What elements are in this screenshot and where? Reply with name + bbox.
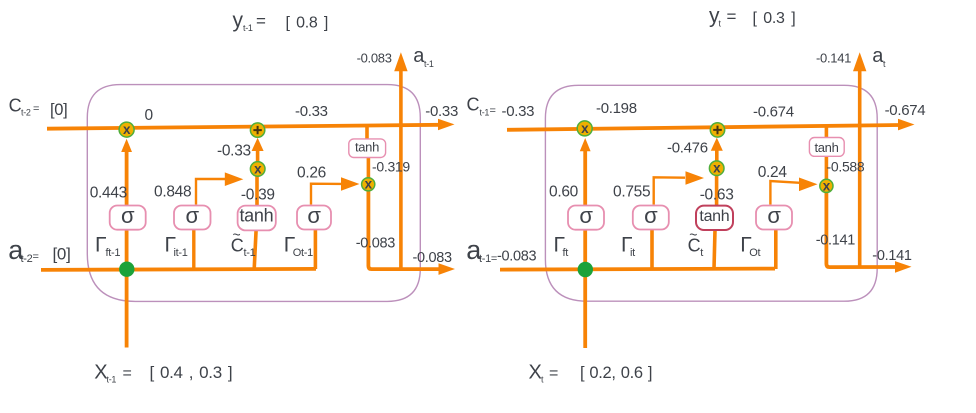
svg-text:-0.33: -0.33 — [425, 103, 458, 120]
svg-text:ft-1: ft-1 — [106, 247, 121, 259]
small tanh box (t-1 output) — [349, 139, 386, 158]
wire: output elbow arrow (0.24) — [770, 181, 800, 205]
LSTM cell boundary U1 (t-1) — [87, 85, 420, 302]
svg-text:[ 0.8 ]: [ 0.8 ] — [286, 15, 329, 32]
sigma box: forget gate (t) — [568, 206, 604, 230]
wire: C line to small tanh stub (t) — [825, 126, 829, 138]
svg-text:-0.141: -0.141 — [816, 50, 851, 65]
svg-text:-0.476: -0.476 — [667, 140, 708, 157]
svg-text:-0.083: -0.083 — [413, 250, 453, 266]
label C_t-1 = -0.33 — [467, 95, 535, 121]
wire: small tanh to X3 stub — [367, 158, 371, 179]
label y_t-1 = [ 0.8 ] — [233, 9, 329, 33]
tanh box: candidate (t) red border — [696, 206, 733, 230]
svg-text:-0.141: -0.141 — [816, 233, 856, 249]
svg-text:σ: σ — [121, 203, 135, 228]
svg-text:σ: σ — [186, 203, 200, 228]
svg-text:Ot-1: Ot-1 — [293, 247, 313, 259]
svg-text:-0.141: -0.141 — [872, 248, 912, 264]
wire: output segment to a_t arrow — [826, 193, 898, 268]
wire: candidate tanh to X2 (t) — [715, 176, 719, 206]
wire: cell-state line C (t) — [507, 125, 900, 130]
node: green junction dot (t) — [578, 262, 593, 277]
wire: forget-gate column + X input line — [125, 230, 129, 348]
svg-text:-0.33: -0.33 — [217, 143, 251, 160]
svg-text:x: x — [713, 161, 721, 176]
small tanh box (t output) — [809, 138, 844, 157]
wire: forget-gate column + X input line (t) — [583, 230, 587, 349]
svg-text:-0.198: -0.198 — [596, 100, 637, 117]
svg-text:-0.083: -0.083 — [357, 50, 392, 65]
wire: candidate column — [254, 230, 256, 269]
svg-text:0.848: 0.848 — [154, 184, 191, 201]
wire: cell-state line C (t-1) — [47, 125, 440, 129]
svg-text:t: t — [883, 59, 886, 69]
svg-text:C: C — [9, 96, 22, 116]
label X_t = [ 0.2, 0.6 ] — [529, 362, 653, 385]
svg-text:tanh: tanh — [699, 208, 729, 225]
svg-text:X: X — [529, 362, 542, 384]
svg-text:tanh: tanh — [239, 206, 273, 226]
svg-text:t: t — [541, 375, 544, 385]
svg-text:-0.083: -0.083 — [356, 236, 396, 252]
svg-text:ft: ft — [563, 247, 569, 259]
svg-text:0.26: 0.26 — [297, 165, 326, 182]
wire: forget-gate to X1 arrow (t) — [583, 148, 587, 206]
svg-text:[ 0.2, 0.6 ]: [ 0.2, 0.6 ] — [580, 364, 652, 382]
svg-text:0.60: 0.60 — [549, 184, 579, 201]
svg-text:-0.33: -0.33 — [295, 103, 328, 120]
add node + (t) — [710, 123, 724, 137]
svg-text:t-2: t-2 — [21, 253, 33, 265]
svg-text:σ: σ — [644, 203, 658, 228]
sigma box: forget gate (t-1) — [110, 206, 146, 230]
sigma box: update gate (t-1) — [174, 206, 211, 230]
wire: candidate column (t) — [714, 230, 715, 269]
label Gamma_it-1 — [165, 234, 188, 260]
label Gamma_ft — [554, 234, 569, 260]
wire: output elbow arrow (0.26) — [311, 184, 342, 205]
svg-text:=: = — [549, 365, 558, 382]
svg-text:σ: σ — [307, 203, 321, 228]
svg-text:tanh: tanh — [355, 139, 379, 154]
node: green junction dot (t-1) — [119, 262, 134, 277]
svg-text:x: x — [823, 178, 831, 193]
svg-text:t-1: t-1 — [107, 375, 117, 385]
svg-text:t-1: t-1 — [480, 107, 490, 117]
wire: forget-gate to X1 arrow — [125, 149, 129, 206]
svg-text:=: = — [490, 105, 496, 117]
svg-text:X: X — [94, 362, 107, 384]
svg-text:t-1=: t-1= — [479, 253, 497, 265]
label a_t-1 = -0.083 — [466, 235, 536, 265]
wire: output segment to a_t-1 arrow — [368, 191, 440, 269]
svg-text:σ: σ — [579, 203, 593, 228]
svg-text:t-2: t-2 — [21, 108, 31, 118]
wire: hidden-state up line (t) — [858, 68, 862, 268]
wire: output-gate column — [314, 230, 318, 270]
svg-text:x: x — [254, 161, 262, 176]
svg-text:-0.319: -0.319 — [372, 159, 410, 175]
multiply node X1 (t-1 forget) — [119, 122, 134, 137]
wire: update-gate column — [192, 230, 195, 270]
svg-text:~: ~ — [689, 227, 697, 243]
wire: C line to small tanh stub — [365, 127, 369, 140]
svg-text:0.755: 0.755 — [613, 184, 650, 201]
wire: hidden-state up line (t-1) — [399, 68, 403, 270]
svg-text:t-1: t-1 — [244, 247, 256, 259]
multiply node X2 (t-1 update) — [250, 162, 265, 177]
wire: X2 to + arrow — [256, 148, 260, 162]
svg-text:Ot: Ot — [749, 247, 760, 259]
wire: update-gate column (t) — [650, 230, 654, 270]
svg-text:t-1: t-1 — [243, 23, 253, 33]
svg-text:0.443: 0.443 — [90, 185, 127, 202]
label a_t-1 top — [413, 45, 434, 69]
svg-text:it-1: it-1 — [174, 247, 188, 259]
label Gamma_Ot-1 — [284, 234, 313, 260]
svg-text:=: = — [123, 365, 132, 382]
svg-text:[ 0.4 , 0.3 ]: [ 0.4 , 0.3 ] — [150, 363, 233, 382]
svg-text:[0]: [0] — [50, 101, 67, 119]
svg-text:x: x — [365, 177, 373, 192]
svg-text:-0.63: -0.63 — [700, 187, 734, 204]
svg-text:σ: σ — [767, 203, 781, 228]
label X_t-1 = [ 0.4 , 0.3 ] — [94, 362, 232, 385]
svg-text:-0.588: -0.588 — [827, 158, 865, 174]
label Gamma_it — [621, 234, 635, 260]
svg-text:=: = — [727, 7, 737, 26]
label C~_t — [688, 227, 704, 260]
sigma box: output gate (t) — [756, 206, 792, 230]
sigma box: update gate (t) — [633, 206, 669, 230]
svg-text:y: y — [233, 9, 244, 32]
multiply node X3 (t output) — [820, 179, 833, 192]
svg-text:-0.33: -0.33 — [502, 103, 535, 120]
svg-text:-0.083: -0.083 — [497, 249, 537, 265]
multiply node X2 (t update) — [709, 161, 724, 176]
svg-text:[0]: [0] — [53, 245, 71, 264]
wire: input a line (t-1) — [41, 269, 316, 270]
wire: input a line (t) — [500, 269, 775, 270]
svg-text:it: it — [630, 247, 635, 259]
svg-text:-0.39: -0.39 — [241, 187, 275, 204]
label C_t-2 = [0] — [9, 96, 68, 119]
label a_t top — [872, 45, 886, 69]
LSTM cell boundary U2 (t) — [545, 85, 877, 301]
wire: small tanh to X3 stub (t) — [825, 156, 829, 180]
label a_t-2 = [0] — [8, 235, 70, 265]
svg-text:=: = — [256, 12, 266, 31]
svg-text:t: t — [719, 19, 722, 29]
tanh box: candidate (t-1) — [238, 206, 276, 231]
svg-text:-0.674: -0.674 — [885, 102, 926, 119]
svg-text:tanh: tanh — [814, 140, 838, 155]
multiply node X3 (t-1 output) — [362, 178, 375, 191]
svg-text:t: t — [700, 247, 703, 259]
wire: output-gate column (t) — [774, 230, 778, 270]
wire: candidate tanh to X2 — [255, 177, 259, 206]
label Gamma_Ot — [740, 234, 760, 260]
svg-text:[ 0.3 ]: [ 0.3 ] — [753, 10, 796, 27]
wire: X2 to + arrow (t) — [715, 148, 719, 161]
svg-text:=: = — [33, 103, 39, 115]
label y_t = [ 0.3 ] — [709, 5, 795, 29]
svg-text:0.24: 0.24 — [758, 164, 788, 181]
svg-text:~: ~ — [233, 227, 241, 243]
svg-text:x: x — [123, 122, 131, 137]
sigma box: output gate (t-1) — [297, 206, 331, 230]
multiply node X1 (t forget) — [577, 121, 592, 136]
svg-text:x: x — [581, 121, 589, 136]
svg-text:t-1: t-1 — [424, 59, 434, 69]
svg-text:C: C — [467, 95, 480, 115]
wire: update elbow arrow (0.755) — [654, 177, 685, 204]
svg-text:-0.674: -0.674 — [753, 103, 794, 120]
label C~_t-1 — [231, 227, 256, 260]
wire: update elbow arrow (0.848) — [196, 179, 225, 205]
label Gamma_ft-1 — [95, 234, 120, 260]
svg-text:=: = — [33, 251, 39, 263]
add node + (t-1) — [250, 123, 264, 137]
svg-text:0: 0 — [145, 107, 154, 124]
